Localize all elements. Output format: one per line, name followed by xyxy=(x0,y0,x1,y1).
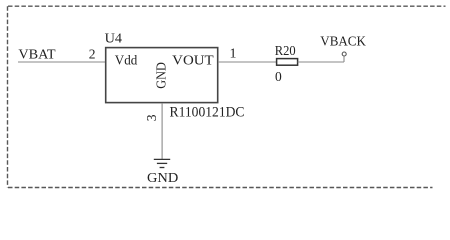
svg-text:Vdd: Vdd xyxy=(115,52,138,67)
svg-text:2: 2 xyxy=(89,47,96,62)
svg-text:R20: R20 xyxy=(275,43,296,58)
wire R20 to VBACK terminal xyxy=(298,56,344,62)
label R20 xyxy=(275,43,296,58)
wire U4 VOUT to resistor R20 xyxy=(218,61,277,63)
designator U4 xyxy=(105,31,123,46)
node VBACK xyxy=(320,33,366,48)
svg-text:3: 3 xyxy=(144,114,159,121)
terminal circle VBACK xyxy=(342,52,346,56)
wire U4 pin 3 to ground xyxy=(161,103,163,159)
svg-text:VBAT: VBAT xyxy=(18,46,56,61)
pin 3 label of U4 (rotated) xyxy=(144,114,159,121)
border dashed frame (decorative) xyxy=(8,6,446,187)
svg-text:1: 1 xyxy=(230,46,237,61)
pin 1 label of U4 xyxy=(230,46,237,61)
svg-text:GND: GND xyxy=(147,170,178,185)
svg-text:0: 0 xyxy=(275,69,282,84)
value label R1100121DC of U4 xyxy=(170,104,245,120)
svg-text:VBACK: VBACK xyxy=(320,33,366,48)
svg-text:U4: U4 xyxy=(105,31,123,46)
value 0 of R20 xyxy=(275,69,282,84)
label GND xyxy=(147,170,178,185)
wire VBAT to U4 pin 2 xyxy=(18,61,106,63)
pin name VOUT xyxy=(172,52,214,67)
IC U4 body xyxy=(106,48,218,103)
node VBAT xyxy=(18,46,56,61)
pin name Vdd xyxy=(115,52,138,67)
svg-text:GND: GND xyxy=(153,62,168,89)
resistor R20 body xyxy=(277,59,298,66)
pin name GND (rotated) xyxy=(153,62,168,89)
pin 2 label of U4 xyxy=(89,47,96,62)
svg-text:R1100121DC: R1100121DC xyxy=(170,104,245,120)
svg-text:VOUT: VOUT xyxy=(172,52,214,67)
ground symbol xyxy=(154,159,170,167)
